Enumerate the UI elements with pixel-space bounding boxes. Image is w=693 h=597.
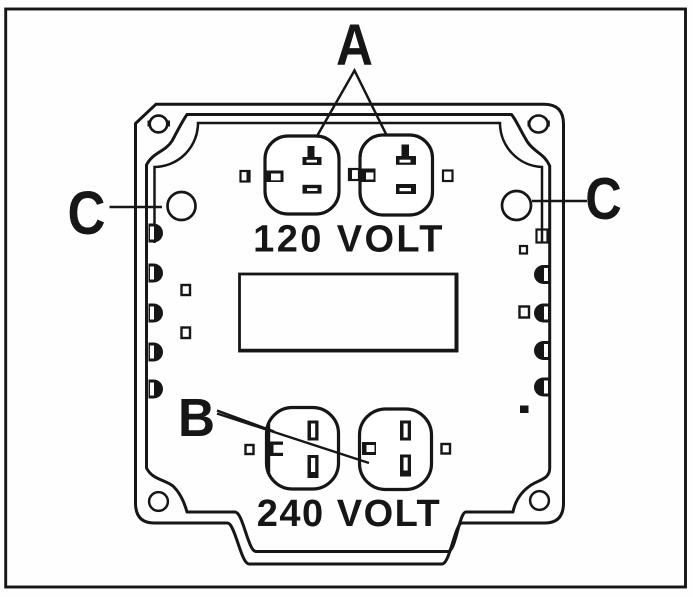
svg-text:C: C	[585, 166, 622, 232]
svg-text:120 VOLT: 120 VOLT	[253, 219, 445, 261]
svg-text:B: B	[178, 388, 215, 448]
svg-text:A: A	[336, 13, 373, 78]
svg-text:240 VOLT: 240 VOLT	[257, 493, 441, 535]
svg-text:C: C	[68, 179, 106, 247]
